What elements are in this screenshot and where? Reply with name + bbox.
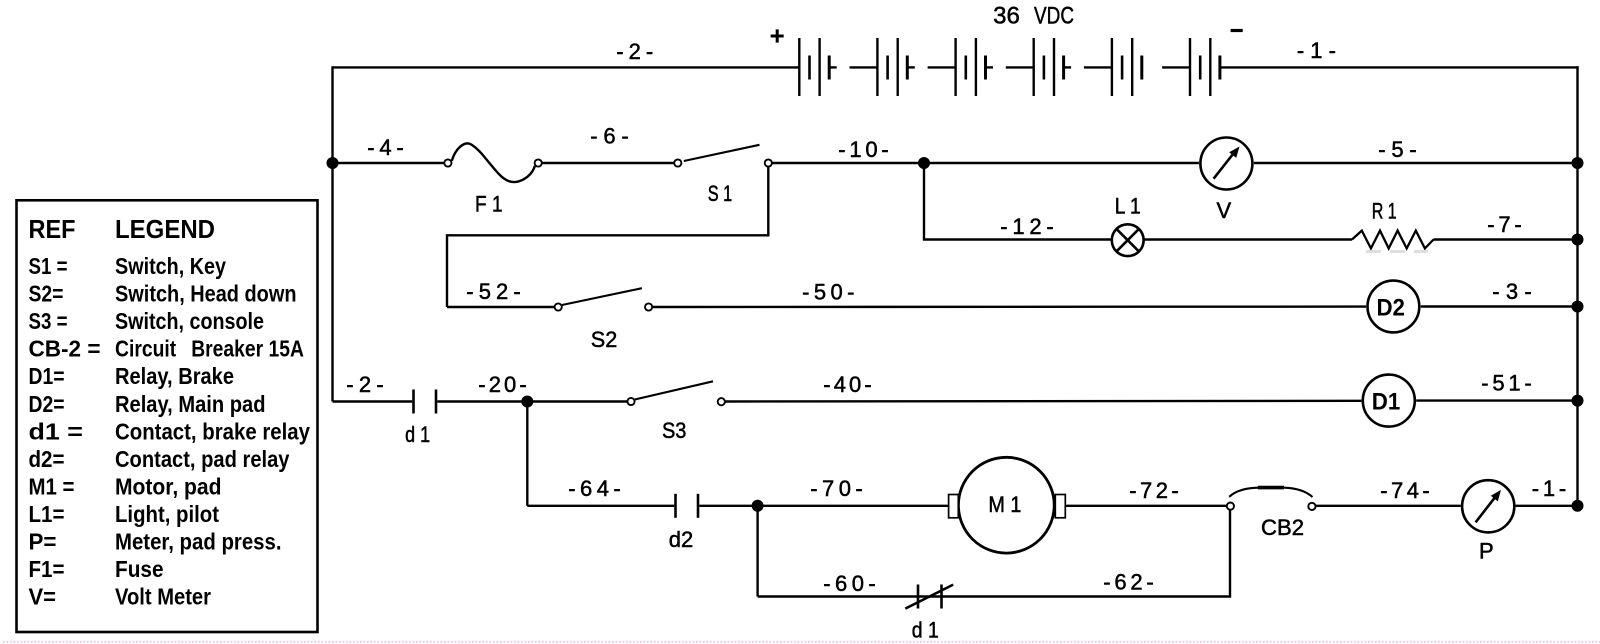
contact d1 brake relay contact	[414, 390, 437, 414]
wire bottom row -60- -62-	[758, 510, 1230, 597]
battery 36 VDC cell group 5	[1112, 38, 1190, 96]
contact d2 pad relay contact	[676, 494, 699, 518]
battery 36 VDC cell group 1	[799, 38, 877, 96]
volt meter V	[1200, 138, 1252, 190]
svg-text:L1=: L1=	[29, 501, 65, 527]
svg-text:M 1: M 1	[988, 492, 1021, 517]
svg-text:-2-: -2-	[616, 39, 653, 64]
svg-text:D1: D1	[1372, 388, 1401, 415]
wire row4 segments	[333, 399, 1578, 402]
svg-text:d 1: d 1	[405, 422, 430, 447]
svg-text:-2-: -2-	[346, 372, 384, 397]
pilot light L1	[1112, 224, 1144, 256]
wire row2 segments	[333, 162, 1578, 164]
svg-text:Contact, pad relay: Contact, pad relay	[115, 446, 290, 472]
svg-text:Relay, Brake: Relay, Brake	[115, 363, 234, 389]
wire junction -20- down	[526, 402, 528, 506]
node junction -20-	[521, 396, 533, 408]
wire junction -70- down	[756, 506, 758, 597]
switch S3	[635, 381, 713, 399]
svg-text:R 1: R 1	[1372, 199, 1397, 224]
svg-text:VDC: VDC	[1034, 3, 1074, 30]
svg-text:d1 =: d1 =	[29, 418, 84, 444]
svg-text:S2=: S2=	[29, 281, 64, 307]
wire right vertical bus	[1576, 66, 1578, 506]
legend box	[17, 200, 318, 632]
fuse F1	[452, 143, 535, 182]
switch S2	[562, 288, 642, 305]
svg-text:Volt Meter: Volt Meter	[115, 584, 211, 610]
svg-text:-6-: -6-	[590, 124, 629, 149]
node right bus at -3-	[1572, 301, 1584, 313]
svg-text:S 1: S 1	[708, 181, 733, 206]
contact d1 NC bottom	[905, 585, 953, 609]
svg-text:Switch, console: Switch, console	[115, 308, 264, 334]
svg-text:Relay, Main pad: Relay, Main pad	[115, 391, 266, 417]
svg-text:LEGEND: LEGEND	[115, 214, 215, 244]
battery 36 VDC cell group 2	[877, 38, 955, 96]
switch S1	[684, 145, 760, 161]
svg-text:D1=: D1=	[29, 363, 65, 389]
svg-text:Fuse: Fuse	[115, 556, 164, 582]
node right bus at -5-	[1572, 157, 1584, 169]
battery 36 VDC cell group 6	[1190, 38, 1220, 96]
svg-text:M1 =: M1 =	[29, 473, 75, 499]
svg-text:P=: P=	[29, 529, 57, 555]
node junction at -10-/-12-	[918, 157, 930, 169]
wire top left -2- run	[333, 66, 800, 68]
node right bus at -51-	[1572, 395, 1584, 407]
wire top right -1- run	[1220, 66, 1579, 68]
svg-text:CB2: CB2	[1261, 515, 1304, 540]
motor M1	[958, 457, 1054, 553]
svg-text:-7-: -7-	[1487, 212, 1522, 237]
battery 36 VDC cell group 4	[1034, 38, 1112, 96]
svg-text:-1-: -1-	[1532, 476, 1567, 501]
svg-text:S1 =: S1 =	[29, 253, 68, 279]
svg-text:Switch, Key: Switch, Key	[115, 253, 226, 279]
svg-text:36: 36	[993, 3, 1020, 30]
relay D2	[1368, 281, 1420, 333]
svg-text:V: V	[1216, 198, 1231, 223]
battery 36 VDC cell group 3	[956, 38, 1034, 96]
svg-text:Switch, Head down: Switch, Head down	[115, 281, 297, 307]
svg-text:Contact, brake relay: Contact, brake relay	[115, 418, 310, 444]
svg-text:S2: S2	[591, 327, 618, 352]
battery plus terminal sign	[771, 29, 784, 42]
svg-text:S3: S3	[662, 418, 687, 443]
svg-text:d2: d2	[669, 527, 694, 552]
svg-text:-5-: -5-	[1378, 137, 1417, 162]
svg-text:-4-: -4-	[367, 135, 404, 160]
svg-text:Circuit Breaker 15A: Circuit Breaker 15A	[115, 336, 304, 362]
svg-text:-1-: -1-	[1297, 38, 1336, 63]
svg-text:D2=: D2=	[29, 391, 65, 417]
wire row -12-	[924, 163, 1578, 240]
svg-text:Motor, pad: Motor, pad	[115, 473, 222, 499]
svg-text:CB-2 =: CB-2 =	[29, 336, 101, 362]
pressure meter P	[1462, 480, 1514, 532]
svg-text:F 1: F 1	[475, 192, 503, 217]
relay D1	[1363, 375, 1415, 427]
wire S1 to S2 drop	[447, 167, 768, 307]
wire left vertical bus	[331, 66, 333, 401]
battery minus terminal sign	[1231, 29, 1243, 32]
svg-text:F1=: F1=	[29, 556, 65, 582]
wire row5 segments	[527, 505, 1577, 507]
node right bus at -7-	[1572, 234, 1584, 246]
resistor R1	[1352, 231, 1434, 249]
node right bus at -1-	[1572, 500, 1584, 512]
svg-text:V=: V=	[29, 584, 57, 610]
faint mark above D2	[1366, 250, 1428, 253]
svg-text:d 1: d 1	[912, 617, 939, 642]
svg-text:-3-: -3-	[1492, 279, 1532, 304]
svg-text:d2=: d2=	[29, 446, 65, 472]
svg-text:D2: D2	[1376, 295, 1405, 322]
wire row S2 -50-	[447, 305, 1578, 308]
svg-text:L 1: L 1	[1115, 193, 1141, 218]
circuit breaker CB2	[1229, 488, 1312, 497]
svg-text:Light, pilot: Light, pilot	[115, 501, 219, 527]
svg-text:S3 =: S3 =	[29, 308, 68, 334]
svg-text:REF: REF	[29, 214, 76, 244]
svg-text:Meter, pad press.: Meter, pad press.	[115, 529, 282, 555]
svg-text:P: P	[1479, 538, 1494, 563]
node junction -70-	[752, 500, 764, 512]
node junction at -4- left bus	[327, 157, 339, 169]
pink dotted page boundary	[3, 641, 1600, 643]
